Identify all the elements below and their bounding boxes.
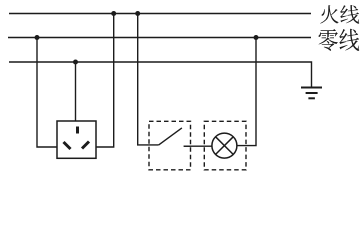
wire live to socket right pin [96,14,114,148]
wire lamp to neutral [237,38,256,146]
junction dot on neutral at x256 [254,35,259,40]
wire neutral to socket left pin [37,38,57,148]
wire neutral N (零线) horizontal [8,37,311,39]
socket XS outline [57,121,96,158]
ground symbol [301,88,322,99]
lamp circle [212,133,237,158]
label 零线 (neutral wire) [318,29,359,51]
junction dot on neutral at x37 [35,35,40,40]
socket live slot [82,142,89,149]
junction dot on live at x113.7 [111,11,116,16]
wire switch to lamp [184,145,212,147]
switch S dashed box [149,121,191,170]
label 火线 (live wire) [320,5,359,24]
wire earth E horizontal [9,62,312,87]
junction dot on live at x137.7 [135,11,140,16]
lamp cross stroke 2 [216,137,234,155]
wire live L (火线) horizontal [9,13,311,15]
switch right contact stub [184,145,191,147]
wire earth to socket center pin [75,62,77,121]
junction dot on earth at x75.5 [73,60,78,65]
lamp EL dashed box [204,121,246,170]
switch blade [159,128,182,145]
lamp cross stroke 1 [216,137,234,155]
socket neutral slot [64,142,71,149]
wire live to switch [138,14,159,145]
socket earth slot [76,127,79,134]
